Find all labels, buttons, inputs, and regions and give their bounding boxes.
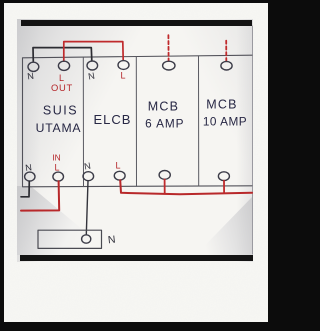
svg-text:N: N: [27, 71, 35, 82]
terminal circle MCB10 bottom: [218, 172, 229, 181]
top-left gray wash on paper: [17, 19, 253, 262]
terminal circle SUIS L bottom: [53, 172, 64, 181]
svg-text:OUT: OUT: [51, 82, 73, 93]
wire: red stub MCB10 bottom to bus: [223, 181, 225, 193]
wire: red dashed outgoing MCB6: [167, 35, 169, 61]
wire: red live link top (SUIS L OUT to ELCB L): [64, 42, 123, 61]
svg-text:UTAMA: UTAMA: [36, 121, 82, 135]
svg-text:IN: IN: [52, 153, 60, 163]
paper right edge: [252, 26, 254, 254]
terminal circle ELCB N bottom: [83, 172, 94, 181]
svg-text:L: L: [115, 161, 120, 171]
terminal circle ELCB N top: [87, 61, 98, 70]
photo paper: [17, 19, 253, 262]
mat speckle noise: [4, 3, 268, 322]
wire: red stub MCB6 bottom to bus: [164, 179, 166, 193]
panel box outline: [23, 55, 253, 187]
svg-text:L: L: [54, 163, 59, 173]
terminal circle MCB6 bottom: [159, 171, 170, 180]
wire: black ELCB N to neutral link: [86, 181, 88, 235]
wire: red incoming live (bottom left): [21, 181, 59, 210]
terminal circle ELCB L top: [118, 61, 129, 70]
terminal circle SUIS L top: [58, 61, 69, 70]
terminal circle SUIS N top: [28, 62, 39, 71]
wire: black neutral link top (SUIS N to ELCB N): [33, 48, 92, 62]
svg-text:MCB: MCB: [206, 98, 237, 112]
terminal circle MCB6 top: [163, 61, 175, 70]
bottom-left gray triangle shadow: [17, 186, 113, 255]
svg-text:N: N: [25, 162, 33, 173]
svg-text:MCB: MCB: [148, 100, 179, 114]
white mat: [4, 3, 268, 322]
terminal circle SUIS N bottom: [25, 172, 35, 181]
divider MCB6|MCB10: [198, 56, 200, 186]
svg-text:N: N: [107, 234, 116, 247]
svg-text:SUIS: SUIS: [43, 104, 78, 118]
photo bottom black bar: [20, 255, 253, 262]
divider SUIS|ELCB: [82, 58, 84, 187]
svg-text:N: N: [83, 161, 91, 172]
wire: red ELCB L to live bus: [120, 180, 252, 194]
photo top black bar: [21, 20, 252, 26]
svg-text:N: N: [87, 71, 95, 82]
neutral link box: [38, 230, 102, 248]
divider ELCB|MCB6: [135, 57, 137, 187]
terminal circle MCB10 top: [221, 61, 232, 70]
svg-text:6 AMP: 6 AMP: [145, 117, 184, 131]
svg-text:10 AMP: 10 AMP: [203, 115, 247, 129]
bottom-right gray triangle shadow: [192, 196, 253, 255]
wire: black incoming neutral (bottom left): [21, 181, 29, 197]
neutral link terminal circle: [82, 235, 91, 243]
svg-text:L: L: [120, 71, 125, 81]
svg-text:ELCB: ELCB: [94, 112, 132, 127]
wire: red dashed outgoing MCB10: [225, 41, 227, 62]
terminal circle ELCB L bottom: [114, 171, 125, 180]
